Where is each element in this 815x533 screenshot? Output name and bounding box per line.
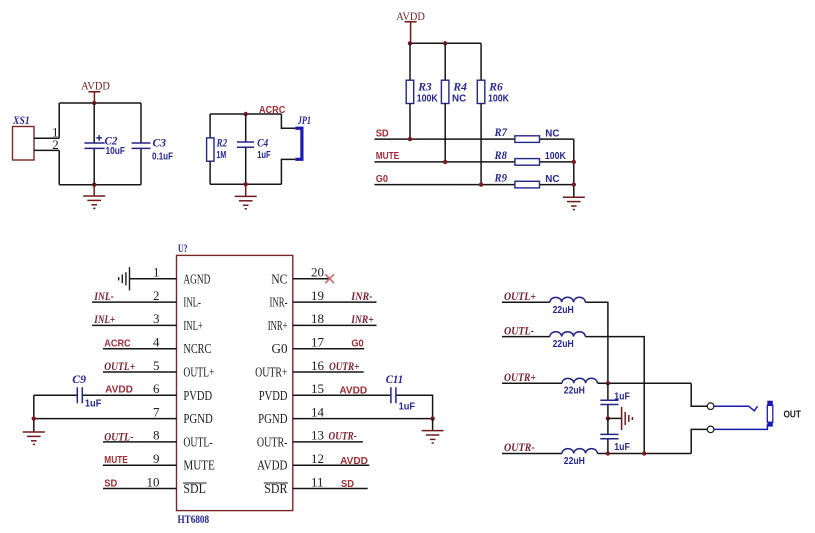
svg-text:1uF: 1uF [399,401,416,412]
svg-text:SD: SD [104,478,117,489]
node junction SD-R3 [408,137,412,141]
wire pin2 INL- [92,301,177,303]
svg-text:OUTR-: OUTR- [504,440,535,454]
svg-text:AVDD: AVDD [396,9,425,23]
ground D-left [23,432,45,444]
svg-text:AGND: AGND [183,272,210,287]
wire OUTR- left [502,453,562,455]
ground C [563,197,585,209]
capacitor C3 [132,135,173,162]
wire R6 bottom lead [480,104,482,185]
inductor L3 [562,378,597,396]
wire MUTE row [374,161,573,163]
wire pin1 AGND [130,278,177,280]
capacitor C11 [293,372,433,418]
wire G0 row [374,184,573,186]
svg-text:C9: C9 [72,372,86,386]
wire top rail C [410,42,481,44]
svg-text:OUTR+: OUTR+ [504,370,536,384]
node junction A-bottom [92,183,96,187]
svg-text:C4: C4 [257,136,268,150]
svg-text:2: 2 [52,137,59,152]
svg-text:HT6808: HT6808 [178,512,210,526]
resistor R8 [494,148,567,165]
svg-text:10uF: 10uF [106,146,126,157]
svg-text:OUTL+: OUTL+ [504,289,536,303]
node junction pull-MUTE [572,160,576,164]
jack J1 body [767,401,773,427]
svg-text:16: 16 [311,358,325,373]
wire pin3 INL+ [92,324,177,326]
svg-text:C11: C11 [386,372,404,386]
wire SD row [374,138,573,140]
svg-text:JP1: JP1 [297,113,311,127]
svg-text:SD: SD [341,479,354,490]
node junction B-bottom [244,182,248,186]
svg-text:11: 11 [311,474,324,489]
svg-text:INL-: INL- [183,296,201,311]
svg-text:SDR: SDR [264,482,288,497]
node junction pull-G0 [572,182,576,186]
svg-text:NC: NC [271,272,287,287]
wire pin14 PGND [293,418,433,420]
node junction caps-OUTR- [606,451,610,455]
svg-text:OUTL-: OUTL- [504,323,534,337]
svg-text:AVDD: AVDD [257,459,287,474]
svg-text:10: 10 [147,474,160,489]
svg-text:NC: NC [545,174,559,185]
pin name SDR overline [264,482,288,497]
inductor L1 [550,297,585,315]
svg-text:SDL: SDL [183,482,206,497]
capacitor C4 [237,114,271,184]
pin name SDL overline [183,482,207,497]
svg-text:OUTR-: OUTR- [257,435,288,450]
ground earth (filter) [622,407,633,430]
svg-text:0.1uF: 0.1uF [152,152,173,163]
svg-text:12: 12 [311,451,324,466]
svg-text:OUTL-: OUTL- [104,430,133,444]
svg-text:100K: 100K [488,93,510,104]
svg-text:R3: R3 [417,80,431,94]
node junction MUTE-R4 [443,160,447,164]
wire pin7 PGND [34,418,177,420]
contact circle upper [707,403,714,410]
svg-text:1M: 1M [217,150,227,161]
resistor R2 [207,136,228,162]
jack sleeve lead [714,424,767,429]
svg-text:OUTR+: OUTR+ [329,359,359,373]
svg-text:7: 7 [153,404,160,419]
svg-text:INR+: INR+ [351,312,374,326]
wire XS1 pin2 [34,149,59,151]
node junction C9-PGND [32,416,36,420]
inductor L4 [562,449,597,467]
svg-text:17: 17 [311,335,325,350]
node junction C-R3 [408,41,412,45]
wire pin9 MUTE [103,464,177,466]
svg-text:OUTL-: OUTL- [183,435,212,450]
wire lower contact rise [691,429,707,453]
svg-text:1: 1 [153,265,160,280]
svg-text:1uF: 1uF [614,391,630,402]
svg-text:SD: SD [376,128,389,139]
resistor R9 [494,171,560,188]
wire OUTR+ left [502,382,562,384]
wire earth stem [608,417,621,419]
wire upper contact drop [691,383,707,406]
wire R6 top lead [480,43,482,80]
svg-text:PVDD: PVDD [259,389,288,404]
svg-text:13: 13 [311,428,324,443]
svg-text:OUTL+: OUTL+ [183,366,214,381]
svg-text:NC: NC [452,93,466,104]
svg-text:5: 5 [153,358,160,373]
no-ERC marker X [325,274,334,283]
wire R3 bottom lead [409,104,411,140]
svg-text:4: 4 [153,335,160,350]
wire right pull vertical [573,139,575,197]
svg-text:INR-: INR- [270,296,288,311]
svg-text:AVDD: AVDD [339,386,367,397]
node junction OUTL-/OUTR- [642,451,646,455]
wire pin16 OUTR+ [293,371,364,373]
svg-text:XS1: XS1 [12,113,30,127]
svg-text:2: 2 [153,288,160,303]
svg-text:18: 18 [311,311,324,326]
wire OUTL+ right [585,302,608,383]
wire pin11 SD [293,488,368,490]
svg-text:22uH: 22uH [553,305,574,316]
svg-text:100K: 100K [545,151,567,162]
wire pin10 SD [103,488,177,490]
wire R3 top lead [409,43,411,80]
wire OUTL- right [585,337,644,454]
svg-text:C3: C3 [153,135,167,149]
svg-text:AVDD: AVDD [105,385,133,396]
svg-text:ACRC: ACRC [104,339,130,350]
node junction mid caps [606,416,610,420]
svg-text:20: 20 [311,265,324,280]
wire pin5 OUTL+ [103,371,177,373]
svg-text:9: 9 [153,451,160,466]
svg-text:8: 8 [153,428,160,443]
connector XS1 [12,113,34,160]
wire OUTR+ right [597,382,691,384]
contact circle lower [707,426,714,433]
svg-text:22uH: 22uH [564,386,585,397]
power AVDD (top-left) [81,79,110,104]
svg-text:G0: G0 [272,342,288,357]
ground AGND rotated (pin1) [119,267,130,290]
svg-text:1uF: 1uF [85,398,102,409]
resistor R7 [494,125,560,142]
svg-text:R7: R7 [494,125,508,139]
svg-text:1uF: 1uF [257,150,270,161]
svg-text:OUTR-: OUTR- [329,429,357,443]
wire pin12 AVDD [293,464,370,466]
ground D-right [422,431,444,443]
wire C11 ground stem [432,419,434,431]
wire pin13 OUTR- [293,441,363,443]
svg-text:R8: R8 [494,148,507,162]
wire bottom rail B [210,183,281,185]
resistor R4 [441,80,467,105]
wire OUTL- left [502,336,550,338]
svg-text:R6: R6 [488,80,502,94]
ground B [235,184,257,209]
wire OUTR- right [597,453,691,455]
jack tip spring [714,406,758,411]
wire left vertical lower [58,150,60,184]
svg-text:MUTE: MUTE [183,459,214,474]
capacitor CF1 [600,383,630,418]
svg-text:INL+: INL+ [183,319,202,334]
svg-text:1uF: 1uF [614,442,630,453]
jumper JP1 [295,113,311,161]
capacitor C2 [84,103,125,185]
svg-text:INL-: INL- [94,289,114,303]
node junction G0-R6 [479,182,483,186]
svg-text:MUTE: MUTE [104,455,128,466]
svg-text:G0: G0 [376,174,389,185]
svg-text:PGND: PGND [258,412,287,427]
svg-text:R9: R9 [494,171,507,185]
power AVDD (top-right) [396,9,425,44]
node ACRC [244,105,286,116]
svg-text:G0: G0 [351,339,364,350]
wire pin17 G0 [293,348,364,350]
wire OUTL+ left [502,301,550,303]
svg-text:14: 14 [311,404,325,419]
svg-text:PGND: PGND [183,412,212,427]
svg-text:INL+: INL+ [94,312,116,326]
svg-text:15: 15 [311,381,324,396]
wire JP1 top lead [281,114,295,128]
wire B left vertical upper [209,114,211,138]
wire pin19 INR- [293,301,377,303]
wire R4 top lead [444,43,446,80]
wire left vertical upper [58,103,60,138]
wire right vertical C3 upper [140,103,142,143]
svg-text:3: 3 [153,311,160,326]
wire R4 bottom lead [444,104,446,162]
svg-text:19: 19 [311,288,324,303]
resistor R6 [477,80,509,105]
svg-text:NCRC: NCRC [183,342,211,357]
wire pin4 ACRC [103,348,177,350]
svg-text:PVDD: PVDD [183,389,212,404]
wire top rail A [59,102,141,104]
svg-text:U?: U? [178,241,188,255]
capacitor CF2 [600,418,630,453]
node junction C-R4 [443,41,447,45]
node junction A-top [92,101,96,105]
svg-text:OUTL+: OUTL+ [104,359,135,373]
svg-text:R4: R4 [452,80,466,94]
svg-text:AVDD: AVDD [81,79,110,93]
svg-text:INR+: INR+ [268,319,288,334]
svg-text:INR-: INR- [350,289,372,303]
svg-text:100K: 100K [417,93,439,104]
svg-text:AVDD: AVDD [340,456,368,467]
svg-text:OUTR+: OUTR+ [255,366,287,381]
inductor L2 [550,332,585,351]
op-amp U1 chip body [177,241,293,526]
wire right vertical C3 lower [140,149,142,185]
resistor R3 [406,80,438,105]
ground A [83,185,105,209]
svg-text:22uH: 22uH [553,339,574,350]
wire bottom rail A [59,184,141,186]
wire pin18 INR+ [293,324,377,326]
svg-text:22uH: 22uH [564,456,585,467]
node junction C11-PGND [430,416,434,420]
svg-text:MUTE: MUTE [376,151,400,162]
svg-text:6: 6 [153,381,160,396]
wire B left vertical lower [209,161,211,184]
wire pin20 NC [293,278,329,280]
wire JP1 bottom lead [281,159,295,184]
svg-text:NC: NC [545,128,559,139]
wire C9 ground vertical [33,395,35,432]
node junction OUTL+/OUTR+ [606,381,610,385]
capacitor C9 [34,372,177,409]
svg-text:R2: R2 [216,136,227,150]
wire XS1 pin1 [34,137,59,139]
wire pin8 OUTL- [103,441,177,443]
svg-text:OUT: OUT [784,409,801,420]
wire ACRC top rail [210,113,281,115]
